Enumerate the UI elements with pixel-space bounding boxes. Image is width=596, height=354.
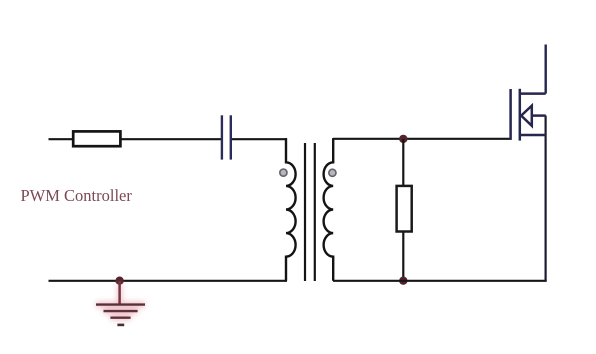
svg-text:PWM Controller: PWM Controller [21,186,133,205]
transformer T1 polarity dot (secondary) [329,169,336,176]
junction: ground node [115,277,123,285]
transistor Q1 (N-channel MOSFET) [511,89,546,141]
node A: junction at top of R2 [399,135,407,143]
wire: C1 to transformer primary [232,138,287,140]
wire: R1 to C1 [120,138,221,140]
transformer T1 primary winding [286,138,296,281]
wire: drain stub to supply [545,45,547,94]
wire: R2 branch vertical [402,139,404,281]
wire: bottom-left (primary return) [49,280,288,282]
transformer T1 polarity dot (primary) [280,169,287,176]
wire: secondary top to gate [333,138,511,140]
ground symbol [96,281,145,325]
resistor R1 (series input) [73,131,120,146]
wire: bottom-right (secondary return) [333,280,547,282]
wire: top-left input [49,138,74,140]
capacitor C1 [222,115,231,159]
transformer T1 secondary winding [324,138,334,281]
wire: source to bottom rail [544,116,546,281]
transformer T1 core [305,143,315,281]
resistor R2 (secondary load) [397,186,412,232]
node B: junction at bottom of R2 [399,277,407,285]
